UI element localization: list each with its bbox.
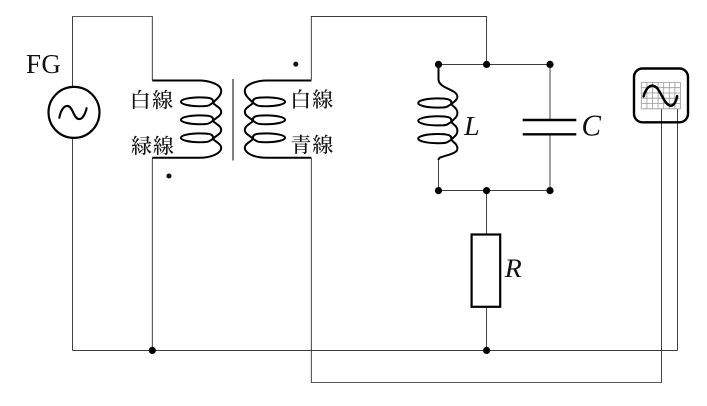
wire: tank bottom rail	[439, 190, 551, 192]
inductor L	[418, 64, 457, 160]
resistor R	[472, 235, 501, 307]
svg-text:FG: FG	[26, 49, 61, 79]
wire: L bottom lead	[438, 159, 440, 191]
source FG: circle	[49, 87, 100, 138]
transformer T1 core	[232, 79, 234, 161]
label secondary white wire	[293, 89, 309, 108]
svg-text:L: L	[463, 110, 480, 141]
wire: primary bottom lead down to rail	[151, 158, 153, 351]
transformer T1 primary winding	[152, 81, 221, 158]
oscilloscope body	[634, 69, 688, 123]
wire: R top lead	[486, 191, 488, 235]
oscilloscope trace	[644, 86, 678, 106]
wire: secondary bottom lead to scope CH input	[311, 109, 661, 383]
wire: FG top to transformer primary top	[73, 17, 153, 87]
wire: main bottom rail	[73, 349, 678, 351]
label primary green wire	[132, 136, 152, 155]
label primary white wire	[133, 90, 149, 109]
phase dot primary	[166, 173, 171, 178]
node tank top-right	[546, 61, 553, 68]
node tank bottom-left	[435, 187, 442, 194]
transformer T1 secondary winding	[245, 81, 311, 158]
phase dot secondary	[293, 62, 298, 67]
junction R-return on bottom rail	[483, 347, 490, 354]
svg-text:C: C	[582, 108, 602, 143]
source FG: sine symbol	[59, 106, 86, 119]
wire: scope ground probe down to bottom rail	[677, 109, 679, 350]
oscilloscope screen grid	[641, 82, 680, 108]
wire: R bottom lead	[486, 307, 488, 351]
wire: C top lead	[549, 64, 551, 119]
svg-text:R: R	[504, 254, 522, 283]
wire: secondary top lead up and over to tank top	[311, 16, 486, 80]
wire: tank top rail	[439, 63, 551, 65]
node tank bottom-mid	[483, 187, 490, 194]
wire: FG bottom down to bottom rail	[72, 139, 74, 351]
node tank bottom-right	[546, 187, 553, 194]
wire: C bottom lead	[549, 135, 551, 190]
capacitor C top plate	[523, 119, 577, 121]
capacitor C bottom plate	[523, 133, 577, 135]
label secondary blue wire	[291, 135, 310, 154]
node tank top-mid	[483, 61, 490, 68]
node tank top-left	[435, 61, 442, 68]
junction primary-return on bottom rail	[149, 347, 156, 354]
